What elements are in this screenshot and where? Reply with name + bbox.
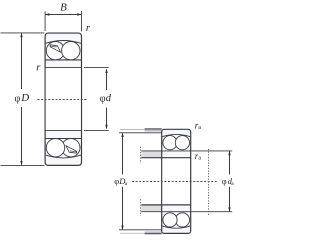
centerline left view <box>38 99 87 101</box>
housing bore faint line top <box>120 128 145 130</box>
arrow da top <box>228 151 230 155</box>
shoulder / inner ring line upper (da level) <box>141 150 190 152</box>
dimension da line lower segment <box>229 187 231 211</box>
hidden line left shaft bottom <box>140 199 142 216</box>
cage pocket lower <box>66 146 77 153</box>
outer raceway arc bottom <box>46 155 81 158</box>
dimension D extension line bottom <box>1 164 45 166</box>
svg-text:φ: φ <box>15 94 21 105</box>
arrow D top <box>20 33 22 37</box>
ball row lower: right ball <box>62 139 80 157</box>
shaft shoulder line right lower <box>191 211 232 213</box>
centerline right view <box>132 181 219 183</box>
shaft shoulder fill top <box>141 151 161 158</box>
svg-text:a: a <box>198 125 201 131</box>
outer raceway arc top right view <box>162 134 190 136</box>
dimension Da line lower segment <box>122 187 124 230</box>
arrow d top <box>105 69 107 73</box>
dimension Da line upper segment <box>122 133 124 174</box>
housing shoulder bottom edge line <box>145 233 162 235</box>
bore line upper <box>45 66 81 68</box>
inner ring shoulder line upper <box>45 59 81 61</box>
cage pocket upper <box>50 45 61 52</box>
upper balls right view <box>163 136 177 150</box>
shaft shoulder fill bottom <box>141 205 161 212</box>
dimension d line lower segment <box>106 108 108 129</box>
shoulder / inner ring line lower (da level) <box>141 211 190 213</box>
dimension da line upper segment <box>229 151 231 174</box>
dimension B extension line right <box>81 11 83 32</box>
arrow B left <box>45 13 49 15</box>
dimension D line lower segment <box>21 107 23 165</box>
svg-text:B: B <box>60 1 67 13</box>
svg-text:D: D <box>20 92 29 104</box>
svg-text:a: a <box>198 155 201 161</box>
arrow d bottom <box>105 125 107 129</box>
ball row lower: left ball <box>46 139 64 157</box>
housing bore faint line bottom <box>120 232 145 234</box>
outer raceway arc top <box>46 41 81 44</box>
arrow da bottom <box>228 207 230 211</box>
Da extension line top (housing shoulder) <box>119 132 162 134</box>
dimension D extension line top <box>1 32 45 34</box>
hidden line right shaft <box>208 149 210 216</box>
bearing outer rectangle right view <box>162 129 191 233</box>
bore region white left view <box>46 68 81 130</box>
inner ring shoulder line lower <box>45 138 81 140</box>
arrow B right <box>77 13 81 15</box>
arrow Da top <box>121 133 123 137</box>
housing shoulder fill top <box>145 129 162 131</box>
outer raceway arc bottom right view <box>162 226 190 228</box>
ball row upper: left ball <box>46 42 64 60</box>
lower balls right view <box>175 213 189 227</box>
housing shoulder top edge line <box>145 128 162 130</box>
hidden line left shaft top <box>140 147 142 164</box>
bore region white right view <box>162 158 190 204</box>
dimension B line <box>46 14 81 16</box>
dimension d extension line bottom <box>84 129 109 131</box>
svg-text:φ: φ <box>222 176 227 186</box>
ball row upper: right ball <box>62 42 80 60</box>
dimension d line upper segment <box>106 69 108 90</box>
dimension d extension line top (bore extended) <box>84 66 109 68</box>
arrow D bottom <box>20 161 22 165</box>
svg-text:d: d <box>106 93 112 104</box>
arrow Da bottom <box>121 226 123 230</box>
shaft shoulder line right upper <box>191 150 232 152</box>
housing shoulder fill bottom <box>145 231 162 233</box>
Da extension line bottom (housing shoulder) <box>119 229 162 231</box>
outer ring rectangle <box>45 33 81 165</box>
bore line lower <box>45 129 81 131</box>
shaft surface line lower <box>141 204 190 206</box>
shaft surface line upper <box>141 157 190 159</box>
dimension D line upper segment <box>21 33 23 89</box>
dimension B extension line left <box>44 11 46 31</box>
